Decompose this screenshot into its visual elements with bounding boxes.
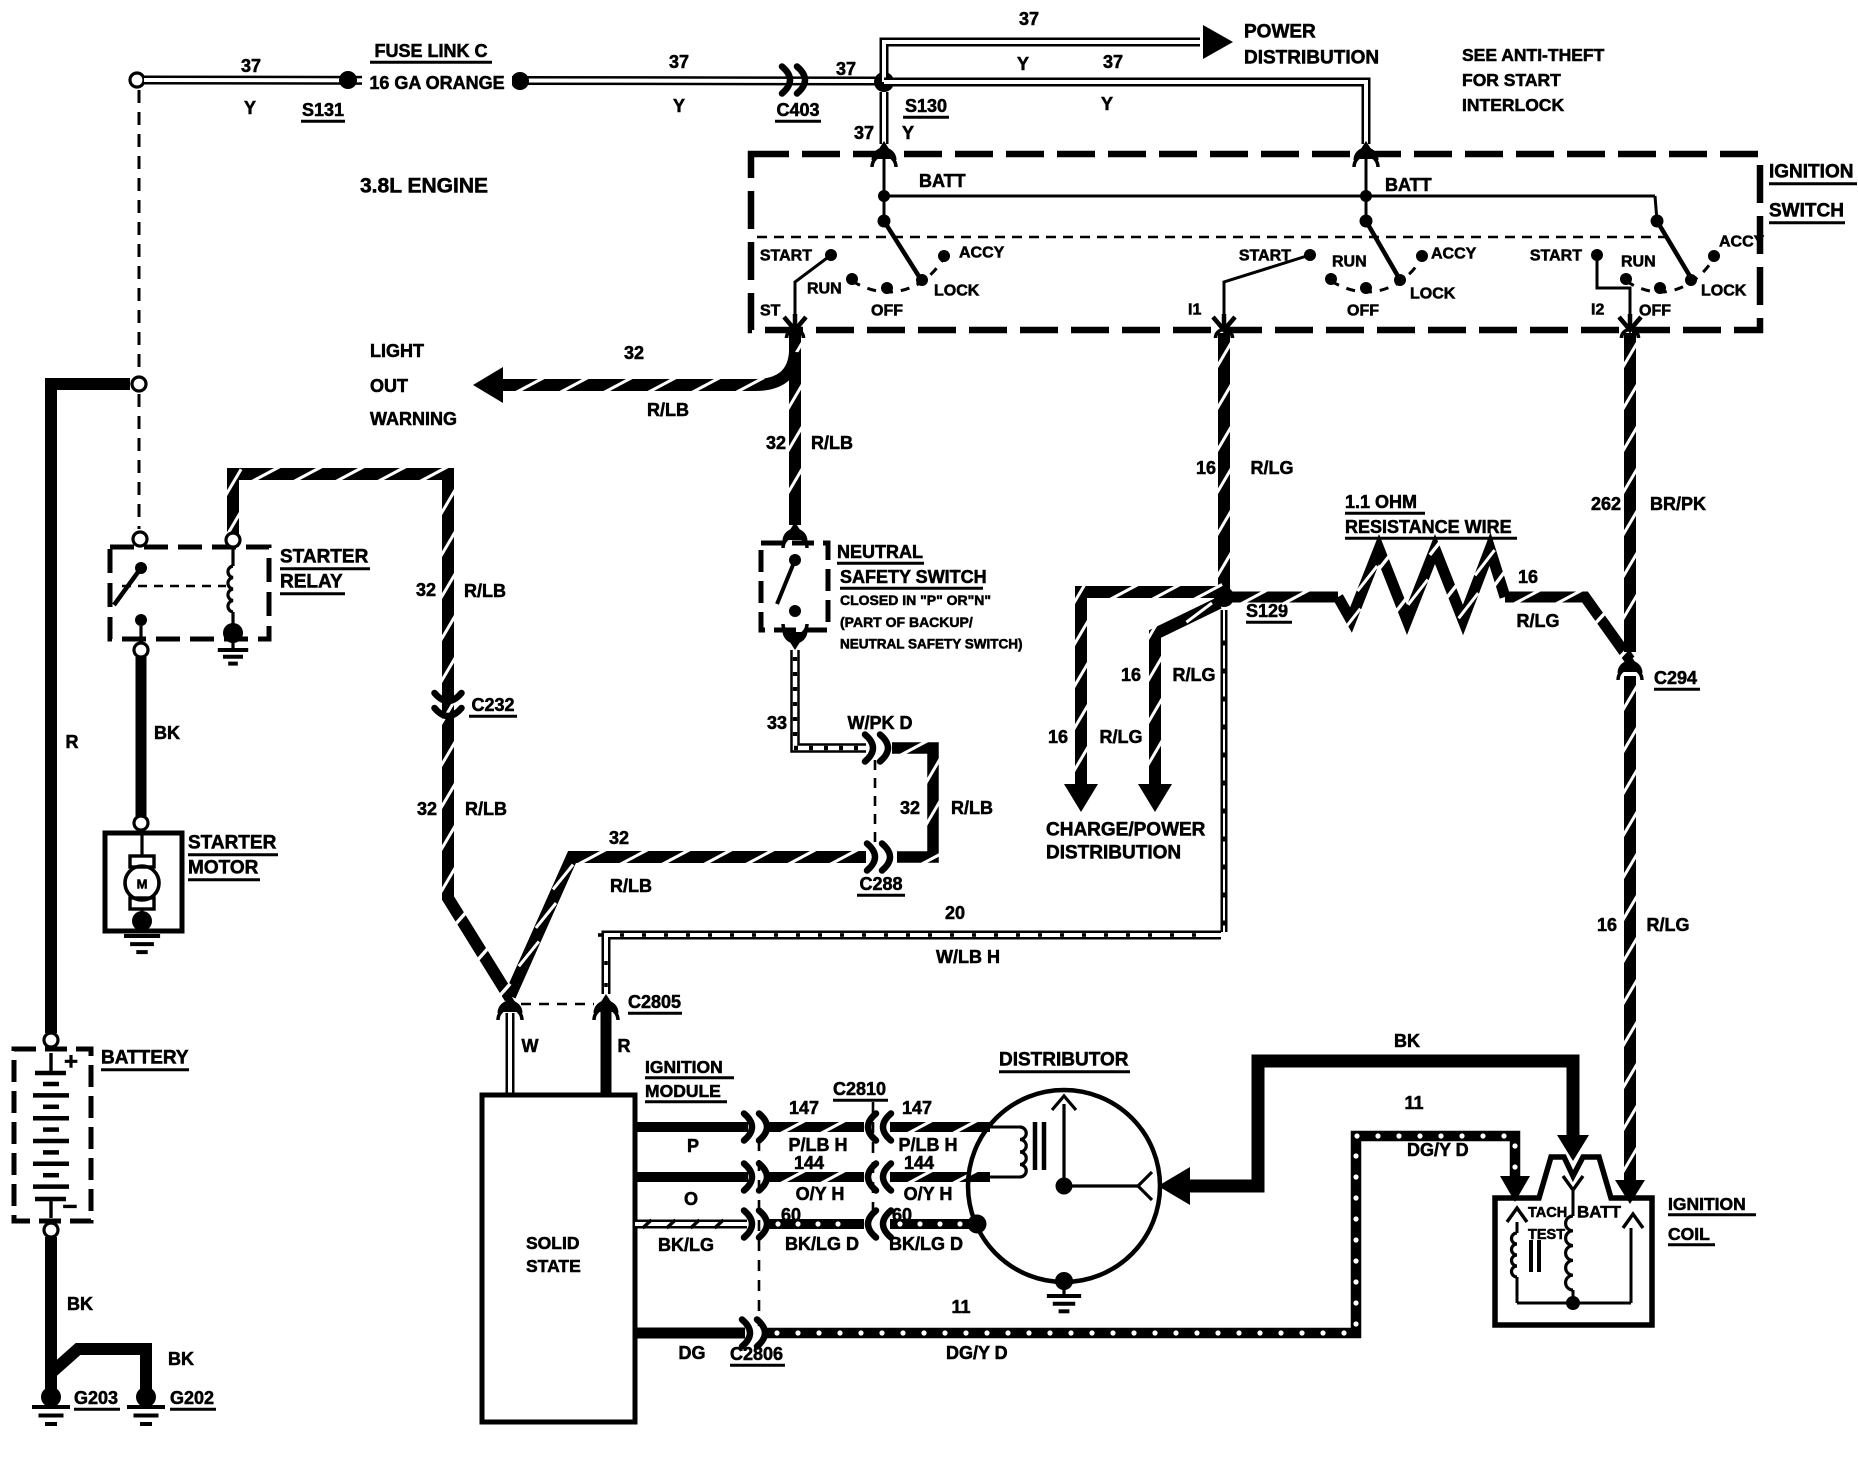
resistor 1.1 ohm resistance wire: [1232, 542, 1630, 660]
switch 2 start line: [1224, 255, 1310, 317]
svg-text:SEE ANTI-THEFT: SEE ANTI-THEFT: [1462, 45, 1605, 65]
label C294: [1654, 668, 1700, 689]
wire R battery positive: [51, 384, 130, 1033]
wire 33 W/PK D: [794, 650, 866, 748]
svg-text:COIL: COIL: [1668, 1224, 1710, 1244]
connector arrow into NSS: [783, 522, 807, 548]
label R/LB: [465, 799, 507, 819]
label C232: [469, 695, 517, 716]
label RESISTANCE WIRE: [1345, 517, 1517, 538]
svg-text:1.1 OHM: 1.1 OHM: [1345, 492, 1417, 512]
svg-text:C288: C288: [859, 874, 902, 894]
switch 2 wiper: [1360, 215, 1400, 279]
svg-text:37: 37: [1019, 9, 1039, 29]
svg-text:STARTER: STARTER: [188, 833, 277, 854]
svg-text:RUN: RUN: [1332, 254, 1367, 271]
label 60: [892, 1205, 912, 1225]
svg-text:G202: G202: [170, 1388, 214, 1408]
svg-text:P: P: [687, 1136, 699, 1156]
label SOLID STATE: [526, 1233, 581, 1276]
label BATT: [1385, 175, 1432, 195]
NSS blade: [777, 560, 795, 604]
wire BK distributor to coil: [1158, 1061, 1589, 1205]
svg-text:LOCK: LOCK: [1701, 283, 1747, 300]
svg-text:START: START: [1239, 248, 1291, 265]
label BK/LG D: [889, 1234, 963, 1254]
ignition module box: [482, 1095, 635, 1422]
label 11: [1404, 1093, 1423, 1113]
wire Y to ignition switch batt 2: [884, 82, 1366, 144]
connector column dashed C2806: [758, 1140, 761, 1326]
dashed wire to relay: [138, 394, 141, 529]
wire 16 R/LG charge branch 1: [1064, 577, 1230, 812]
label LIGHT OUT WARNING: [370, 341, 457, 429]
svg-text:OFF: OFF: [1347, 303, 1379, 320]
wire BK/LG 60 BK/LG D: [635, 1211, 969, 1238]
connector C403: [782, 67, 805, 94]
wire 32 R/LB warning branch: [473, 352, 795, 403]
switch 1 wiper: [878, 215, 921, 279]
NSS bottom contact: [789, 605, 801, 617]
label ACCY: [959, 245, 1005, 262]
label LOCK: [934, 283, 980, 300]
svg-text:ACCY: ACCY: [1431, 246, 1477, 263]
label 37: [854, 123, 874, 143]
svg-text:32: 32: [624, 343, 644, 363]
label S130: [903, 96, 949, 117]
label OFF: [1639, 303, 1671, 320]
label IGNITION COIL: [1668, 1194, 1756, 1245]
node open circle battery bottom: [44, 1223, 58, 1237]
connector arrow batt 1: [872, 141, 896, 167]
dashed accessory line: [757, 236, 1669, 239]
svg-text:ST: ST: [760, 303, 781, 320]
svg-text:IGNITION: IGNITION: [1668, 1194, 1746, 1214]
label C2806: [730, 1344, 785, 1365]
starter motor symbol: [125, 835, 159, 919]
splice S129: [1214, 587, 1234, 607]
label R/LB: [951, 798, 993, 818]
label ST: [760, 303, 781, 320]
node: left terminal open circle: [130, 73, 144, 87]
svg-text:−: −: [62, 1191, 77, 1221]
coil batt terminal: [1563, 1176, 1583, 1216]
svg-text:ACCY: ACCY: [1719, 234, 1765, 251]
svg-text:W/PK D: W/PK D: [848, 713, 913, 733]
svg-text:P/LB H: P/LB H: [788, 1135, 847, 1155]
svg-text:33: 33: [767, 713, 787, 733]
svg-text:O/Y H: O/Y H: [796, 1184, 845, 1204]
svg-text:C2805: C2805: [628, 992, 681, 1012]
label P/LB H: [898, 1135, 957, 1155]
svg-text:BR/PK: BR/PK: [1650, 494, 1706, 514]
label C403: [775, 100, 821, 121]
svg-text:BK: BK: [154, 723, 180, 743]
svg-text:32: 32: [417, 799, 437, 819]
label 16: [1121, 665, 1141, 685]
node open circle: [132, 377, 146, 391]
label C2810: [833, 1079, 888, 1100]
label BR/PK: [1650, 494, 1706, 514]
coil tach terminal: [1507, 1208, 1527, 1222]
distributor pickup coil: [988, 1122, 1044, 1177]
svg-text:3.8L ENGINE: 3.8L ENGINE: [360, 175, 488, 198]
connector C288 upper: [865, 735, 888, 762]
label RUN: [807, 281, 842, 298]
label OFF: [1347, 303, 1379, 320]
battery box: [14, 1049, 91, 1221]
connector C232: [435, 693, 462, 716]
svg-text:16: 16: [1048, 727, 1068, 747]
svg-text:11: 11: [951, 1297, 970, 1317]
switch 3 wiper: [1651, 215, 1692, 279]
label 262: [1591, 494, 1621, 514]
coil secondary winding: [1566, 1216, 1573, 1303]
svg-text:START: START: [760, 248, 812, 265]
label LOCK: [1701, 283, 1747, 300]
label 37: [836, 59, 856, 79]
splice S130: [874, 72, 894, 92]
wire 16 R/LG from I1: [1216, 330, 1233, 601]
svg-text:MODULE: MODULE: [645, 1081, 721, 1101]
label DG/Y D: [1407, 1140, 1469, 1160]
svg-text:TEST: TEST: [1528, 1227, 1565, 1243]
label Y: [1101, 94, 1113, 114]
svg-text:BATT: BATT: [919, 171, 966, 191]
label 32: [609, 828, 629, 848]
wire BK relay to starter motor: [136, 657, 147, 816]
label 1.1 OHM: [1345, 492, 1425, 513]
svg-text:O/Y H: O/Y H: [904, 1184, 953, 1204]
svg-text:Y: Y: [244, 98, 256, 118]
label R: [66, 732, 79, 752]
starter relay box: [110, 547, 269, 639]
wire 16 R/LG charge branch 2: [1138, 603, 1219, 812]
svg-text:R/LB: R/LB: [647, 400, 689, 420]
label R/LG: [1517, 611, 1560, 631]
svg-text:BK/LG: BK/LG: [658, 1235, 714, 1255]
label O/Y H: [796, 1184, 845, 1204]
svg-text:RESISTANCE WIRE: RESISTANCE WIRE: [1345, 517, 1512, 537]
label STARTER MOTOR: [188, 833, 278, 880]
label 16: [1196, 458, 1216, 478]
switch 2 contact dots: [1304, 249, 1428, 294]
svg-text:R/LG: R/LG: [1517, 611, 1560, 631]
label LOCK: [1410, 286, 1456, 303]
svg-text:32: 32: [416, 580, 436, 600]
relay blade: [114, 568, 141, 605]
connector C288 lower: [867, 844, 890, 871]
wire 16 R/LG to ignition coil: [1615, 676, 1645, 1204]
node distributor terminal dot: [968, 1215, 987, 1234]
node open circle relay left: [133, 532, 147, 546]
switch 1 start line: [795, 255, 831, 317]
svg-text:BK: BK: [67, 1294, 93, 1314]
svg-text:CHARGE/POWER: CHARGE/POWER: [1046, 820, 1206, 841]
svg-text:STATE: STATE: [526, 1256, 581, 1276]
svg-text:R/LG: R/LG: [1173, 665, 1216, 685]
label NEUTRAL SAFETY SWITCH: [837, 542, 987, 588]
splice S131: [339, 71, 357, 89]
svg-text:BATT: BATT: [1577, 1203, 1622, 1222]
ignition coil body: [1495, 1157, 1652, 1325]
connector link dashed: [874, 760, 877, 846]
wire batt1 drop: [883, 158, 886, 221]
svg-text:37: 37: [669, 52, 689, 72]
distributor ground: [1047, 1272, 1081, 1311]
svg-text:BATTERY: BATTERY: [101, 1048, 189, 1069]
switch 1 ST arrow: [784, 314, 806, 330]
label W: [522, 1036, 539, 1056]
label 147: [902, 1098, 932, 1118]
svg-text:LIGHT: LIGHT: [370, 341, 424, 361]
label O/Y H: [904, 1184, 953, 1204]
svg-text:32: 32: [609, 828, 629, 848]
label START: [760, 248, 812, 265]
svg-text:W: W: [522, 1036, 539, 1056]
connector arrow out of NSS: [783, 624, 807, 650]
svg-text:+: +: [64, 1049, 78, 1076]
svg-text:(PART OF BACKUP/: (PART OF BACKUP/: [840, 614, 973, 630]
coil primary winding: [1512, 1222, 1518, 1303]
label R/LB: [647, 400, 689, 420]
label BK/LG: [658, 1235, 714, 1255]
svg-text:16 GA ORANGE: 16 GA ORANGE: [369, 73, 504, 93]
label DG: [679, 1343, 706, 1363]
label 33: [767, 713, 787, 733]
svg-text:37: 37: [1103, 52, 1123, 72]
label BK: [154, 723, 180, 743]
ground G202: [127, 1387, 165, 1424]
label P/LB H: [788, 1135, 847, 1155]
label plus: [64, 1049, 78, 1076]
label 32: [416, 580, 436, 600]
label 37: [669, 52, 689, 72]
svg-text:OFF: OFF: [1639, 303, 1671, 320]
svg-text:CLOSED IN "P" OR"N": CLOSED IN "P" OR"N": [840, 592, 991, 608]
svg-text:RUN: RUN: [807, 281, 842, 298]
svg-text:C294: C294: [1654, 668, 1697, 688]
svg-text:Y: Y: [1017, 54, 1029, 74]
node bus junction 1: [878, 190, 890, 202]
wire BK battery negative: [45, 1237, 57, 1394]
label DISTRIBUTOR: [999, 1050, 1130, 1072]
svg-text:C2810: C2810: [833, 1079, 886, 1099]
svg-text:DISTRIBUTOR: DISTRIBUTOR: [999, 1050, 1129, 1071]
svg-text:60: 60: [781, 1205, 801, 1225]
svg-text:147: 147: [789, 1098, 819, 1118]
label P: [687, 1136, 699, 1156]
svg-text:C403: C403: [776, 100, 819, 120]
svg-text:FUSE LINK C: FUSE LINK C: [374, 41, 487, 61]
label RUN: [1332, 254, 1367, 271]
svg-text:P/LB H: P/LB H: [898, 1135, 957, 1155]
connector link dashed: [521, 1003, 594, 1006]
label BK/LG D: [785, 1234, 859, 1254]
label POWER DISTRIBUTION: [1244, 22, 1379, 69]
wire BK branch to G202: [51, 1349, 146, 1390]
svg-text:R/LB: R/LB: [465, 799, 507, 819]
svg-text:11: 11: [1404, 1093, 1423, 1113]
relay switch pivot: [135, 562, 147, 574]
wire 20 W/LB H: [598, 935, 1221, 994]
starter motor box: [105, 833, 182, 931]
connector column dashed C2810: [872, 1102, 875, 1218]
svg-text:Y: Y: [673, 96, 685, 116]
svg-text:16: 16: [1121, 665, 1141, 685]
svg-text:37: 37: [241, 56, 261, 76]
label 60: [781, 1205, 801, 1225]
svg-text:MOTOR: MOTOR: [188, 858, 259, 879]
dashed wire upper: [138, 90, 141, 374]
label G202: [170, 1388, 216, 1409]
svg-text:W/LB H: W/LB H: [936, 947, 1000, 967]
svg-text:BK/LG D: BK/LG D: [785, 1234, 859, 1254]
relay coil: [228, 547, 233, 612]
label 11: [951, 1297, 970, 1317]
svg-text:POWER: POWER: [1244, 22, 1316, 43]
starter motor ground: [124, 911, 160, 952]
svg-text:16: 16: [1518, 567, 1538, 587]
wire 37 to power distribution: [884, 25, 1233, 82]
svg-text:20: 20: [945, 903, 965, 923]
wire 262 BR/PK from I2: [1622, 330, 1639, 653]
switch 3 I2 arrow: [1619, 314, 1641, 330]
svg-text:R/LG: R/LG: [1100, 727, 1143, 747]
label R/LG: [1173, 665, 1216, 685]
wire 37 Y fuse link run: [144, 80, 878, 81]
label Y: [1017, 54, 1029, 74]
svg-text:BK: BK: [1394, 1031, 1420, 1051]
label BK: [168, 1349, 194, 1369]
distributor rotor: [1052, 1096, 1152, 1200]
svg-text:IGNITION: IGNITION: [1769, 162, 1853, 183]
switch 3 contact dots: [1591, 249, 1720, 294]
label 16 GA ORANGE: [362, 72, 512, 93]
label 37: [1103, 52, 1123, 72]
svg-text:NEUTRAL: NEUTRAL: [837, 542, 923, 562]
svg-text:DG: DG: [679, 1343, 706, 1363]
svg-text:M: M: [137, 877, 148, 892]
svg-text:SOLID: SOLID: [526, 1233, 579, 1253]
wire W: [506, 1013, 515, 1095]
connector arrow W: [498, 994, 522, 1020]
splice dot after fuse link: [511, 72, 529, 90]
switch 3 start line: [1597, 255, 1630, 317]
label BK: [1394, 1031, 1420, 1051]
svg-text:RELAY: RELAY: [280, 572, 343, 593]
svg-text:WARNING: WARNING: [370, 409, 457, 429]
svg-text:Y: Y: [1101, 94, 1113, 114]
svg-text:IGNITION: IGNITION: [645, 1057, 723, 1077]
svg-text:LOCK: LOCK: [934, 283, 980, 300]
wire batt3 drop: [1655, 196, 1657, 221]
node bus junction 2: [1360, 190, 1372, 202]
distributor body: [968, 1090, 1160, 1282]
label 16: [1597, 915, 1617, 935]
svg-text:START: START: [1530, 248, 1582, 265]
wire 20 W/LB H riser: [1221, 610, 1228, 932]
svg-text:37: 37: [854, 123, 874, 143]
svg-text:R: R: [66, 732, 79, 752]
label W/PK D: [848, 713, 913, 733]
svg-text:DISTRIBUTION: DISTRIBUTION: [1046, 843, 1181, 864]
svg-text:37: 37: [836, 59, 856, 79]
label S131: [301, 100, 345, 121]
label START: [1239, 248, 1291, 265]
label 144: [904, 1153, 934, 1173]
label START: [1530, 248, 1582, 265]
wire 32 R/LB to module: [510, 850, 866, 997]
label 16: [1048, 727, 1068, 747]
label BATTERY: [101, 1048, 189, 1070]
svg-text:144: 144: [904, 1153, 934, 1173]
label ACCY: [1431, 246, 1477, 263]
NSS top contact: [789, 554, 801, 566]
relay coil ground dot: [223, 623, 243, 643]
connector C294: [1618, 654, 1642, 680]
switch 2 dashed arc: [1331, 258, 1422, 292]
svg-text:S130: S130: [905, 96, 947, 116]
label BK: [67, 1294, 93, 1314]
label R/LB: [811, 433, 853, 453]
node open circle below relay: [134, 643, 148, 657]
label IGNITION SWITCH: [1769, 162, 1857, 223]
label RUN: [1621, 254, 1656, 271]
wire 32 R/LB from ST: [787, 330, 804, 526]
svg-text:NEUTRAL SAFETY SWITCH): NEUTRAL SAFETY SWITCH): [840, 637, 1023, 652]
label TACH TEST: [1528, 1205, 1567, 1243]
svg-text:DG/Y D: DG/Y D: [946, 1343, 1008, 1363]
label R/LB: [464, 581, 506, 601]
label Y: [673, 96, 685, 116]
svg-text:I1: I1: [1188, 302, 1201, 319]
svg-text:SWITCH: SWITCH: [1769, 201, 1844, 222]
svg-text:60: 60: [892, 1205, 912, 1225]
svg-text:Y: Y: [902, 123, 914, 143]
connector C2805: [594, 994, 618, 1020]
svg-text:DG/Y D: DG/Y D: [1407, 1140, 1469, 1160]
label W/LB H: [936, 947, 1000, 967]
label I1: [1188, 302, 1201, 319]
wire 32 R/LB relay loop: [225, 467, 510, 999]
connector arrow batt 2: [1354, 141, 1378, 167]
ignition switch box: [751, 154, 1760, 330]
label R/LG: [1647, 915, 1690, 935]
svg-text:S131: S131: [302, 100, 344, 120]
label 20: [945, 903, 965, 923]
svg-text:RUN: RUN: [1621, 254, 1656, 271]
wire O 144 O/Y H: [635, 1164, 990, 1191]
label CHARGE/POWER DISTRIBUTION: [1046, 820, 1206, 864]
svg-text:32: 32: [766, 433, 786, 453]
svg-text:R/LB: R/LB: [811, 433, 853, 453]
label 144: [794, 1153, 824, 1173]
svg-text:R/LB: R/LB: [951, 798, 993, 818]
switch 2 I1 arrow: [1213, 314, 1235, 330]
switch 1 contact dots: [825, 249, 950, 294]
wire R: [601, 1012, 612, 1095]
label S129: [1246, 601, 1292, 622]
switch 1 dashed arc: [852, 258, 944, 292]
label SEE ANTI-THEFT FOR START INTERLOCK: [1462, 45, 1605, 115]
label ACCY: [1719, 234, 1765, 251]
wire batt2 drop: [1365, 158, 1368, 221]
svg-text:TACH: TACH: [1528, 1205, 1567, 1221]
svg-text:32: 32: [900, 798, 920, 818]
svg-text:O: O: [684, 1189, 698, 1209]
label BATT: [1577, 1203, 1622, 1222]
